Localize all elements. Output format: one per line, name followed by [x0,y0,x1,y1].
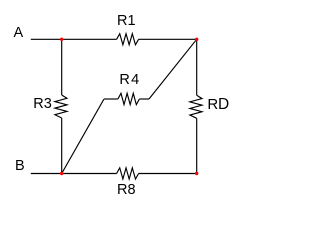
junction dot bottom-right [195,172,198,175]
resistor R1 [117,34,139,45]
wire B to R8 [31,173,117,175]
resistor R8 [117,168,139,179]
node A [14,26,24,40]
resistor R3 [55,95,67,118]
wire A to R1 [31,38,117,40]
wire R4 right lead [139,98,149,100]
wire R8 to bottom-right corner [139,173,197,175]
label R3 [33,97,52,111]
wire R4 left lead [104,98,118,100]
label R4 [119,73,140,87]
wire left vertical upper [61,39,63,95]
junction dot bottom-left [60,172,63,175]
wire left vertical lower [61,118,63,174]
wire right vertical lower [196,118,198,173]
junction dot top-right [195,38,198,41]
node B [15,159,25,173]
wire diagonal upper [149,39,197,99]
wire right vertical upper [196,39,198,95]
resistor R4 [118,93,139,104]
wire diagonal lower [62,99,104,174]
label RD [207,98,218,112]
label R1 [117,14,136,28]
resistor RD [190,95,202,118]
label R8 [117,183,136,197]
junction dot top-left [60,38,63,41]
wire R1 to top-right corner [139,38,197,40]
